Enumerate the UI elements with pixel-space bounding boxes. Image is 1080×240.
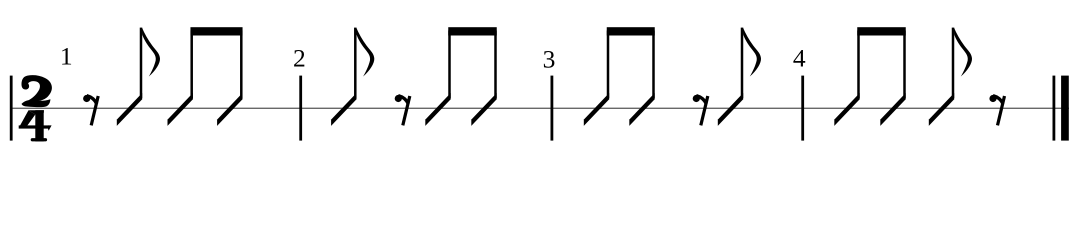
beam P2 (448, 27, 497, 35)
staff line (10, 108, 1069, 109)
eighth note N3 (slash notehead, stem, flag) (718, 28, 761, 126)
svg-text:4: 4 (793, 44, 806, 73)
time signature denominator 4 (19, 110, 52, 141)
beam P1 (190, 27, 242, 35)
eighth rest R3 (693, 95, 708, 126)
final barline (thick) (1061, 76, 1069, 141)
beamed pair P1: note 2 (217, 31, 242, 126)
beamed pair P3: note 1 (584, 31, 609, 126)
eighth note N2 (slash notehead, stem, flag) (331, 28, 374, 126)
eighth rest R2 (395, 95, 410, 126)
beamed pair P2: note 1 (425, 31, 450, 126)
eighth note N1 (slash notehead, stem, flag) (117, 28, 160, 126)
beamed pair P4: note 2 (880, 31, 905, 126)
eighth note N4 (slash notehead, stem, flag) (929, 28, 972, 126)
beam P3 (607, 27, 655, 35)
final barline (thin) (1053, 76, 1056, 141)
beamed pair P4: note 1 (834, 31, 859, 126)
svg-text:2: 2 (293, 44, 306, 73)
svg-text:3: 3 (543, 44, 556, 73)
barline (system start) (10, 76, 13, 141)
time signature numerator 2 (21, 75, 51, 107)
barline 2 (299, 76, 302, 141)
barline 4 (801, 76, 804, 141)
beamed pair P1: note 1 (168, 31, 193, 126)
beamed pair P2: note 2 (471, 31, 496, 126)
eighth rest R4 (989, 95, 1004, 126)
beam P4 (857, 27, 906, 35)
eighth rest R1 (83, 95, 98, 126)
svg-text:1: 1 (60, 42, 73, 71)
barline 3 (551, 76, 554, 141)
beamed pair P3: note 2 (629, 31, 654, 126)
